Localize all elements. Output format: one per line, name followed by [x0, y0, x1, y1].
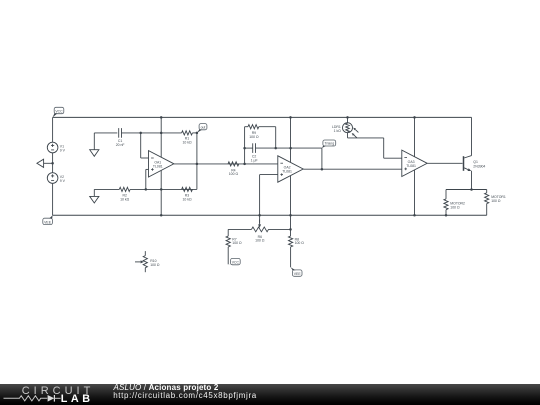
svg-text:100 Ω: 100 Ω: [229, 172, 239, 176]
svg-text:10 kΩ: 10 kΩ: [182, 197, 191, 201]
svg-text:20 nF: 20 nF: [116, 143, 125, 147]
svg-text:VCC: VCC: [55, 109, 63, 113]
svg-text:100 Ω: 100 Ω: [450, 205, 460, 209]
svg-text:VEE: VEE: [44, 220, 52, 224]
svg-text:100 Ω: 100 Ω: [249, 135, 259, 139]
svg-text:LAB: LAB: [61, 393, 94, 405]
svg-text:100 Ω: 100 Ω: [295, 241, 305, 245]
svg-text:1 μF: 1 μF: [251, 158, 258, 162]
svg-text:out: out: [201, 126, 206, 130]
svg-text:100 Ω: 100 Ω: [255, 239, 265, 243]
svg-text:100 Ω: 100 Ω: [232, 241, 242, 245]
svg-text:VCC: VCC: [232, 261, 240, 265]
svg-text:1 kΩ: 1 kΩ: [334, 129, 342, 133]
svg-text:9 V: 9 V: [60, 148, 66, 152]
svg-text:Triang: Triang: [324, 142, 334, 146]
svg-text:10 kΩ: 10 kΩ: [120, 197, 129, 201]
svg-text:10 kΩ: 10 kΩ: [182, 141, 191, 145]
svg-text:TL081: TL081: [406, 164, 416, 168]
svg-text:2N3904: 2N3904: [473, 165, 485, 169]
svg-text:9 V: 9 V: [60, 179, 66, 183]
svg-text:Q1: Q1: [473, 160, 478, 164]
svg-text:TL081: TL081: [153, 164, 163, 168]
svg-text:VEE: VEE: [294, 272, 302, 276]
svg-text:100 Ω: 100 Ω: [150, 263, 160, 267]
svg-text:TL081: TL081: [282, 170, 292, 174]
svg-text:100 Ω: 100 Ω: [491, 199, 501, 203]
